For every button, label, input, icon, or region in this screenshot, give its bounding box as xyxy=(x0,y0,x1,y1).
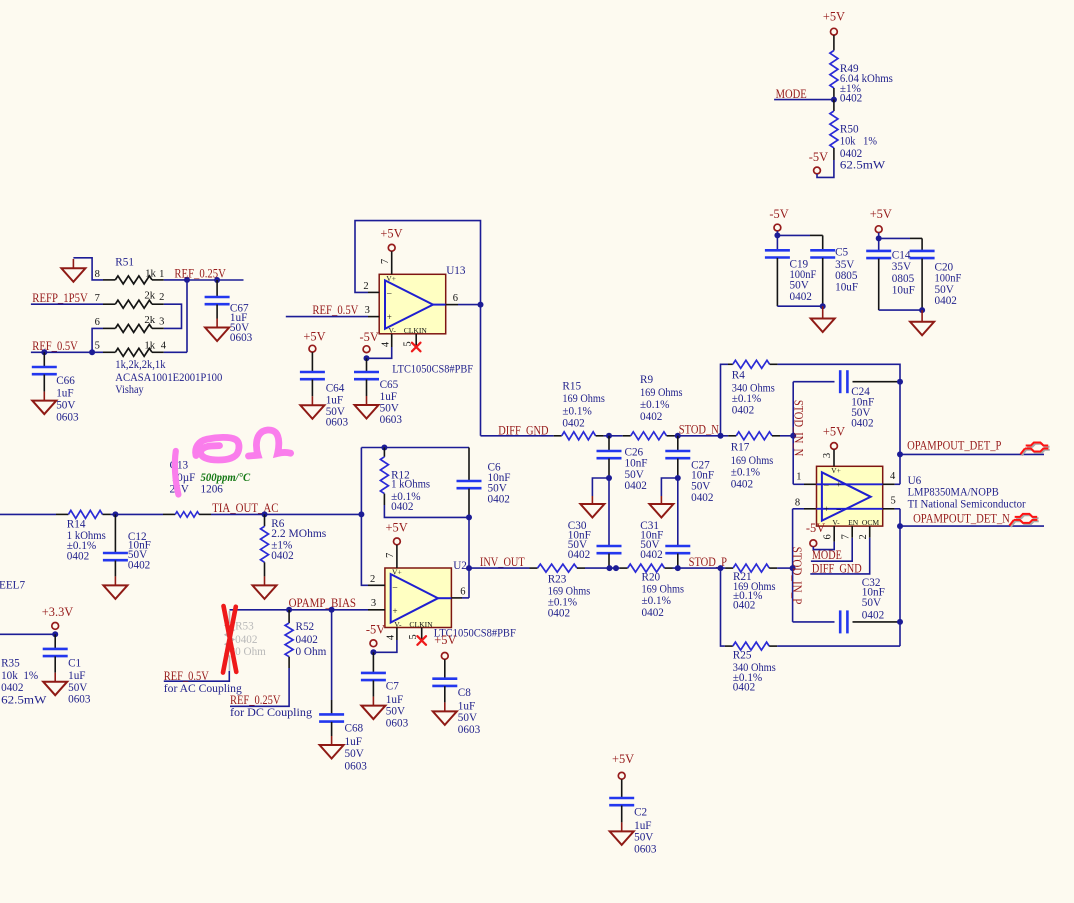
svg-text:INV_OUT: INV_OUT xyxy=(480,555,525,569)
wire R15-R9 xyxy=(604,435,623,437)
wire STOD_N row xyxy=(675,435,729,437)
resistor R14 xyxy=(56,513,68,515)
svg-text:169 Ohms: 169 Ohms xyxy=(642,584,685,596)
resistor R21 xyxy=(725,567,733,569)
ground (C64) xyxy=(300,405,324,419)
wire gnd to R51 pin8 xyxy=(73,258,103,280)
node TIA junction (R6) xyxy=(262,511,268,517)
wire pin1 row xyxy=(793,483,804,485)
wire C19/C5 bottom xyxy=(777,305,822,307)
svg-text:C66: C66 xyxy=(56,375,75,387)
wire pin4 up to pin1 xyxy=(164,351,187,353)
svg-text:EN: EN xyxy=(848,518,859,527)
capacitor C24 xyxy=(839,370,842,393)
svg-text:10nF: 10nF xyxy=(625,457,648,469)
svg-text:10k 1%: 10k 1% xyxy=(1,670,38,682)
svg-text:0805: 0805 xyxy=(835,270,858,282)
power +5V terminal (C14/C20) xyxy=(875,226,882,233)
resistor R51 element 5-4 (1k) xyxy=(103,351,115,353)
off-page connector (DET_N) xyxy=(1011,515,1039,527)
resistor R50 xyxy=(833,100,835,111)
wire OPAMPOUT_DET_N xyxy=(900,525,1044,527)
svg-text:C2: C2 xyxy=(634,807,647,819)
wire REF_0.5V to pin3 xyxy=(286,316,368,318)
resistor R4 xyxy=(728,363,733,365)
wire OPAMP_BIAS to pin3 xyxy=(230,609,369,611)
svg-text:6: 6 xyxy=(822,534,833,539)
svg-text:0402: 0402 xyxy=(640,411,662,423)
pin 5 CLKIN no-connect U2 xyxy=(421,628,423,641)
svg-text:C1: C1 xyxy=(68,657,81,669)
svg-text:0603: 0603 xyxy=(634,844,657,856)
svg-text:for DC Coupling: for DC Coupling xyxy=(230,707,312,719)
svg-text:8: 8 xyxy=(795,498,800,509)
svg-text:0402: 0402 xyxy=(790,291,812,303)
svg-text:50V: 50V xyxy=(68,682,87,694)
svg-text:2.2 MOhms: 2.2 MOhms xyxy=(271,528,326,540)
wire OPAMPOUT_DET_P xyxy=(900,453,1044,455)
capacitor C14 xyxy=(866,250,891,253)
svg-text:R15: R15 xyxy=(562,380,581,392)
svg-text:±0.1%: ±0.1% xyxy=(642,595,671,607)
node R4 branch xyxy=(718,433,724,439)
ground (C66) xyxy=(32,401,56,415)
resistor R51 element 7-2 (2k) xyxy=(103,303,115,305)
node -5V junction xyxy=(364,355,370,361)
node STOD_P xyxy=(675,565,681,571)
capacitor C30 xyxy=(608,478,610,546)
svg-text:C5: C5 xyxy=(835,247,848,259)
svg-text:1uF: 1uF xyxy=(380,391,397,403)
svg-text:–: – xyxy=(836,504,842,514)
ground (C65) xyxy=(355,405,379,419)
svg-text:R9: R9 xyxy=(640,374,653,386)
svg-text:100nF: 100nF xyxy=(935,272,962,284)
pin 4 U13 to -5V xyxy=(391,334,393,347)
wire STOD_IN_N vertical xyxy=(792,382,794,485)
svg-text:+5V: +5V xyxy=(386,520,408,534)
resistor R6 xyxy=(264,514,266,526)
svg-text:OPAMP_BIAS: OPAMP_BIAS xyxy=(289,596,356,610)
svg-text:REF_0.5V: REF_0.5V xyxy=(312,303,358,317)
node -5V junction xyxy=(774,232,780,238)
svg-text:CLKIN: CLKIN xyxy=(404,326,428,335)
pin 5 output row xyxy=(883,508,895,510)
svg-text:1k: 1k xyxy=(145,268,156,280)
svg-text:500ppm/°C: 500ppm/°C xyxy=(201,472,251,484)
svg-text:R50: R50 xyxy=(840,123,859,135)
wire STOD_IN_P vertical xyxy=(792,509,794,622)
wire U13 feedback loop xyxy=(355,221,481,436)
svg-text:+5V: +5V xyxy=(303,329,325,343)
svg-text:4: 4 xyxy=(380,341,391,347)
annotation pink stroke omega shape xyxy=(249,430,291,456)
svg-text:0402: 0402 xyxy=(548,607,570,619)
wire pin2 to pin3 xyxy=(164,304,182,328)
svg-text:STOD_IN_P: STOD_IN_P xyxy=(790,547,804,605)
svg-text:V+: V+ xyxy=(386,274,396,283)
wire C19/C5 top xyxy=(776,231,778,249)
svg-text:R51: R51 xyxy=(115,256,134,268)
svg-text:1uF: 1uF xyxy=(458,700,475,712)
svg-text:10uF: 10uF xyxy=(835,282,858,294)
svg-text:7: 7 xyxy=(380,259,391,264)
node -5V C7 junction xyxy=(370,649,376,655)
power -5V terminal (C19/C5) xyxy=(774,224,781,231)
svg-text:0603: 0603 xyxy=(345,760,368,772)
svg-text:STOD_IN_N: STOD_IN_N xyxy=(791,400,805,456)
wire R4 branch up xyxy=(721,364,729,436)
svg-text:0402: 0402 xyxy=(691,492,713,504)
wire R21 to STOD_IN_P xyxy=(777,567,792,569)
svg-text:1uF: 1uF xyxy=(345,736,362,748)
annotation pink stroke 1 xyxy=(175,451,179,495)
svg-text:V+: V+ xyxy=(831,466,841,475)
no-connect X (U2 pin5) xyxy=(417,636,426,645)
svg-text:TIA_OUT_AC: TIA_OUT_AC xyxy=(212,501,278,515)
svg-text:-5V: -5V xyxy=(360,330,379,344)
wire U2 feedback left vertical xyxy=(361,448,368,586)
svg-text:LTC1050CS8#PBF: LTC1050CS8#PBF xyxy=(392,363,473,375)
capacitor C2 xyxy=(621,779,623,798)
node R25 branch xyxy=(718,565,724,571)
wire C24 row xyxy=(793,381,834,383)
wire R25 branch xyxy=(721,568,725,646)
wire R51 pin1 to REF_0.25V xyxy=(164,279,187,281)
svg-text:V+: V+ xyxy=(392,568,402,577)
svg-text:EEL7: EEL7 xyxy=(0,579,26,591)
svg-text:0603: 0603 xyxy=(326,417,349,429)
svg-text:7: 7 xyxy=(385,553,396,558)
op-amp U6 body xyxy=(817,466,883,526)
svg-text:8: 8 xyxy=(95,269,100,280)
svg-text:0402: 0402 xyxy=(642,607,664,619)
svg-text:STOD_N: STOD_N xyxy=(679,423,719,437)
svg-text:C68: C68 xyxy=(345,722,364,734)
svg-text:C7: C7 xyxy=(386,680,399,692)
wire DIFF_GND to pin2 OCM xyxy=(810,538,869,574)
svg-text:50V: 50V xyxy=(458,712,477,724)
wire C6 to INV_OUT xyxy=(468,517,470,598)
capacitor C66 xyxy=(43,352,45,367)
svg-text:R17: R17 xyxy=(731,442,750,454)
node TIA to U2 vertical xyxy=(358,511,364,517)
svg-text:50V: 50V xyxy=(625,469,644,481)
svg-text:R23: R23 xyxy=(548,574,567,586)
svg-text:2: 2 xyxy=(858,534,869,539)
capacitor C68 xyxy=(331,610,333,700)
node C6 bottom junction xyxy=(466,514,472,520)
ground (C19/C5) xyxy=(811,319,835,333)
ground (C2) xyxy=(610,831,634,845)
capacitor C26 xyxy=(608,436,610,451)
wire C14/C20 top xyxy=(878,233,880,250)
wire DIFF_GND row xyxy=(481,435,554,437)
svg-text:0 Ohm: 0 Ohm xyxy=(235,646,266,658)
svg-text:62.5mW: 62.5mW xyxy=(840,160,886,172)
ground (C8) xyxy=(433,711,457,725)
svg-text:1uF: 1uF xyxy=(634,820,651,832)
svg-text:62.5mW: 62.5mW xyxy=(1,694,47,706)
svg-text:1 kOhms: 1 kOhms xyxy=(391,479,430,491)
power -5V terminal (R50 bottom) xyxy=(814,167,821,174)
svg-text:0402: 0402 xyxy=(840,148,862,160)
svg-text:35V: 35V xyxy=(835,259,854,271)
power +5V terminal (C8) xyxy=(441,653,448,660)
svg-text:2k: 2k xyxy=(144,314,155,326)
svg-text:LMP8350MA/NOPB: LMP8350MA/NOPB xyxy=(908,487,999,499)
resistor R49 xyxy=(830,51,838,89)
node +5V junction xyxy=(876,235,882,241)
node INV_OUT junction xyxy=(466,565,472,571)
svg-text:1uF: 1uF xyxy=(68,670,85,682)
wire INV_OUT row xyxy=(469,567,530,569)
pin 2 stub U13 xyxy=(368,291,379,293)
svg-text:50V: 50V xyxy=(56,400,75,412)
capacitor C32 xyxy=(839,610,842,633)
svg-text:3: 3 xyxy=(159,317,164,328)
svg-text:+: + xyxy=(824,504,829,514)
capacitor C27 xyxy=(677,436,679,451)
svg-text:+5V: +5V xyxy=(870,207,892,221)
svg-text:for AC Coupling: for AC Coupling xyxy=(164,683,242,695)
svg-text:3: 3 xyxy=(822,453,833,458)
svg-text:C65: C65 xyxy=(380,379,399,391)
resistor R9 xyxy=(623,435,631,437)
wire C14/C20 bottom xyxy=(879,309,922,311)
node U13 output junction xyxy=(478,302,484,308)
ground (C68) xyxy=(320,745,344,759)
node C68 tap xyxy=(329,607,335,613)
svg-text:0402: 0402 xyxy=(67,550,89,562)
svg-text:-5V: -5V xyxy=(809,150,828,164)
node STOD_IN_P junction xyxy=(790,565,796,571)
svg-text:R14: R14 xyxy=(67,518,86,530)
svg-text:0603: 0603 xyxy=(386,718,409,730)
resistor R20 xyxy=(620,567,628,569)
svg-text:4: 4 xyxy=(161,341,167,352)
ground (C7) xyxy=(361,706,385,720)
svg-text:0402: 0402 xyxy=(840,92,862,104)
node R17 right junction xyxy=(790,433,796,439)
svg-text:R53: R53 xyxy=(235,621,254,633)
wire +5V to R49 xyxy=(833,35,835,50)
node C66 tap xyxy=(41,349,47,355)
svg-text:±0.1%: ±0.1% xyxy=(562,405,591,417)
svg-text:2: 2 xyxy=(363,281,368,292)
resistor R23 xyxy=(530,567,538,569)
svg-text:ACASA1001E2001P100: ACASA1001E2001P100 xyxy=(115,372,222,384)
node R12 top xyxy=(381,445,387,451)
svg-text:10uF: 10uF xyxy=(892,285,915,297)
ground (C26 tap) xyxy=(580,504,604,518)
svg-text:7: 7 xyxy=(95,293,100,304)
svg-text:+3.3V: +3.3V xyxy=(42,605,73,619)
svg-text:169 Ohms: 169 Ohms xyxy=(562,393,605,405)
svg-text:0402: 0402 xyxy=(862,610,884,622)
svg-text:169 Ohms: 169 Ohms xyxy=(731,455,774,467)
wire right vertical pin5 to R25 xyxy=(899,509,901,646)
pin 7 +5V U2 xyxy=(394,538,401,545)
U6 internal rails xyxy=(817,483,883,485)
svg-text:3: 3 xyxy=(365,305,370,316)
wire R17 to STOD_IN_N xyxy=(780,435,793,437)
svg-text:50V: 50V xyxy=(345,748,364,760)
ground (R6) xyxy=(253,585,277,599)
node C27 gnd tap xyxy=(675,475,681,481)
svg-text:±0.1%: ±0.1% xyxy=(640,399,669,411)
svg-text:REF_0.5V: REF_0.5V xyxy=(32,339,78,353)
svg-text:0402: 0402 xyxy=(562,418,584,430)
wire STOD_P row xyxy=(673,567,726,569)
svg-text:6: 6 xyxy=(460,587,465,598)
op-amp U2 body xyxy=(385,568,452,628)
svg-text:R52: R52 xyxy=(296,621,315,633)
svg-text:+5V: +5V xyxy=(823,10,845,24)
svg-text:50V: 50V xyxy=(862,597,881,609)
ground (R51 pin8) xyxy=(61,268,85,282)
wire R50 to -5V xyxy=(817,160,834,177)
capacitor C6 xyxy=(468,448,470,482)
svg-text:0402: 0402 xyxy=(391,501,413,513)
node OPAMPOUT_DET_N junction xyxy=(897,523,903,529)
capacitor C64 xyxy=(311,352,313,372)
svg-text:0402: 0402 xyxy=(731,479,753,491)
pin 6 output U2 xyxy=(438,597,451,599)
svg-text:+: + xyxy=(387,312,392,322)
svg-text:CLKIN: CLKIN xyxy=(409,620,433,629)
wire gnd tap C27 xyxy=(661,478,677,496)
resistor R25 xyxy=(725,645,733,647)
svg-text:R35: R35 xyxy=(1,657,20,669)
svg-text:C64: C64 xyxy=(326,383,345,395)
node gnd junction (C5) xyxy=(820,303,826,309)
wire R12/C6 top row xyxy=(361,447,469,449)
wire C32 row xyxy=(793,621,835,623)
capacitor C20 xyxy=(910,250,935,253)
svg-text:6: 6 xyxy=(453,293,458,304)
svg-text:0402: 0402 xyxy=(732,404,754,416)
resistor R15 xyxy=(554,435,562,437)
capacitor C1 xyxy=(54,634,56,649)
svg-text:OCM: OCM xyxy=(862,518,880,527)
svg-text:R4: R4 xyxy=(732,370,745,382)
svg-text:TI National Semiconductor: TI National Semiconductor xyxy=(908,499,1026,511)
pin 5 CLKIN no-connect xyxy=(415,334,417,347)
svg-text:0603: 0603 xyxy=(380,414,403,426)
wire R23-R20 xyxy=(585,567,620,569)
ground (C14/C20) xyxy=(910,322,934,336)
svg-text:0402: 0402 xyxy=(235,634,257,646)
svg-text:5: 5 xyxy=(95,341,100,352)
svg-text:–: – xyxy=(392,582,398,592)
op-amp U13 body xyxy=(379,274,446,334)
svg-text:+5V: +5V xyxy=(434,633,456,647)
capacitor C5 xyxy=(810,249,835,252)
node C24 right xyxy=(897,379,903,385)
power +5V terminal (C2) xyxy=(618,772,625,779)
svg-text:0402: 0402 xyxy=(733,682,755,694)
node MODE junction xyxy=(831,97,837,103)
wire MODE xyxy=(774,99,834,101)
power +5V terminal (R49 top) xyxy=(831,28,838,35)
svg-text:5: 5 xyxy=(890,496,895,507)
node double junction INV row xyxy=(607,565,613,571)
svg-text:0402: 0402 xyxy=(271,550,293,562)
svg-text:2: 2 xyxy=(159,292,164,303)
node R51 pin5 junction xyxy=(89,349,95,355)
svg-text:C14: C14 xyxy=(892,249,911,261)
pin 3 +5V U6 xyxy=(831,443,838,450)
svg-text:+: + xyxy=(392,606,397,616)
wire C13 to U2 xyxy=(211,513,361,515)
deletion X over R53 xyxy=(223,606,236,673)
off-page connector (DET_P) xyxy=(1022,444,1050,456)
svg-text:–: – xyxy=(386,288,392,298)
svg-text:0402: 0402 xyxy=(625,480,647,492)
svg-text:2: 2 xyxy=(370,574,375,585)
resistor R51 element 6-3 (2k) xyxy=(152,327,164,329)
wire REFP_1P5V to pin7 xyxy=(31,303,103,305)
node mid N junction xyxy=(606,433,612,439)
svg-text:35V: 35V xyxy=(892,261,911,273)
svg-text:±0.1%: ±0.1% xyxy=(732,393,761,405)
node C12 tap xyxy=(112,511,118,517)
capacitor C67 xyxy=(216,280,218,297)
svg-text:10k 1%: 10k 1% xyxy=(840,135,877,147)
svg-text:0402: 0402 xyxy=(488,494,510,506)
node R52 tap xyxy=(286,607,292,613)
node gnd junction (C20) xyxy=(919,307,925,313)
pin 2 stub U2 xyxy=(368,584,385,586)
wire REF_0.5V xyxy=(31,351,103,353)
svg-text:+5V: +5V xyxy=(380,227,402,241)
svg-text:0402: 0402 xyxy=(568,549,590,561)
svg-text:-5V: -5V xyxy=(366,623,385,637)
wire REF_0.5V (bottom) xyxy=(164,671,230,681)
wire R14 to C13 xyxy=(111,513,164,515)
svg-text:50V: 50V xyxy=(634,831,653,843)
pin 6 output U13 xyxy=(433,304,446,306)
node C32 right xyxy=(897,619,903,625)
capacitor C7 xyxy=(372,652,374,673)
svg-text:REFP_1P5V: REFP_1P5V xyxy=(32,291,87,305)
svg-text:U6: U6 xyxy=(908,475,922,487)
wire R12/C6 bottom row xyxy=(384,505,469,517)
svg-text:1uF: 1uF xyxy=(56,388,73,400)
node C1 junction xyxy=(52,631,58,637)
svg-text:1k,2k,2k,1k: 1k,2k,2k,1k xyxy=(115,359,166,371)
svg-text:V-: V- xyxy=(389,326,397,335)
pin 4 U2 to -5V xyxy=(396,628,398,641)
svg-text:1206: 1206 xyxy=(201,484,224,496)
power +3.3V terminal xyxy=(52,623,59,630)
svg-text:1k: 1k xyxy=(144,340,155,352)
pin 7 +5V U13 xyxy=(388,244,395,251)
wire pin6 to pin5 xyxy=(92,328,103,352)
svg-text:0402: 0402 xyxy=(1,682,23,694)
svg-text:1uF: 1uF xyxy=(326,395,343,407)
ground (C12) xyxy=(103,585,127,599)
wire gnd tap C26 xyxy=(592,478,609,496)
ground (C67) xyxy=(205,328,229,342)
svg-text:6: 6 xyxy=(95,317,100,328)
svg-text:R25: R25 xyxy=(733,650,752,662)
annotation pink stroke 0 shape xyxy=(196,437,239,460)
svg-text:50V: 50V xyxy=(691,481,710,493)
svg-text:+5V: +5V xyxy=(612,752,634,766)
svg-text:1: 1 xyxy=(796,472,801,483)
